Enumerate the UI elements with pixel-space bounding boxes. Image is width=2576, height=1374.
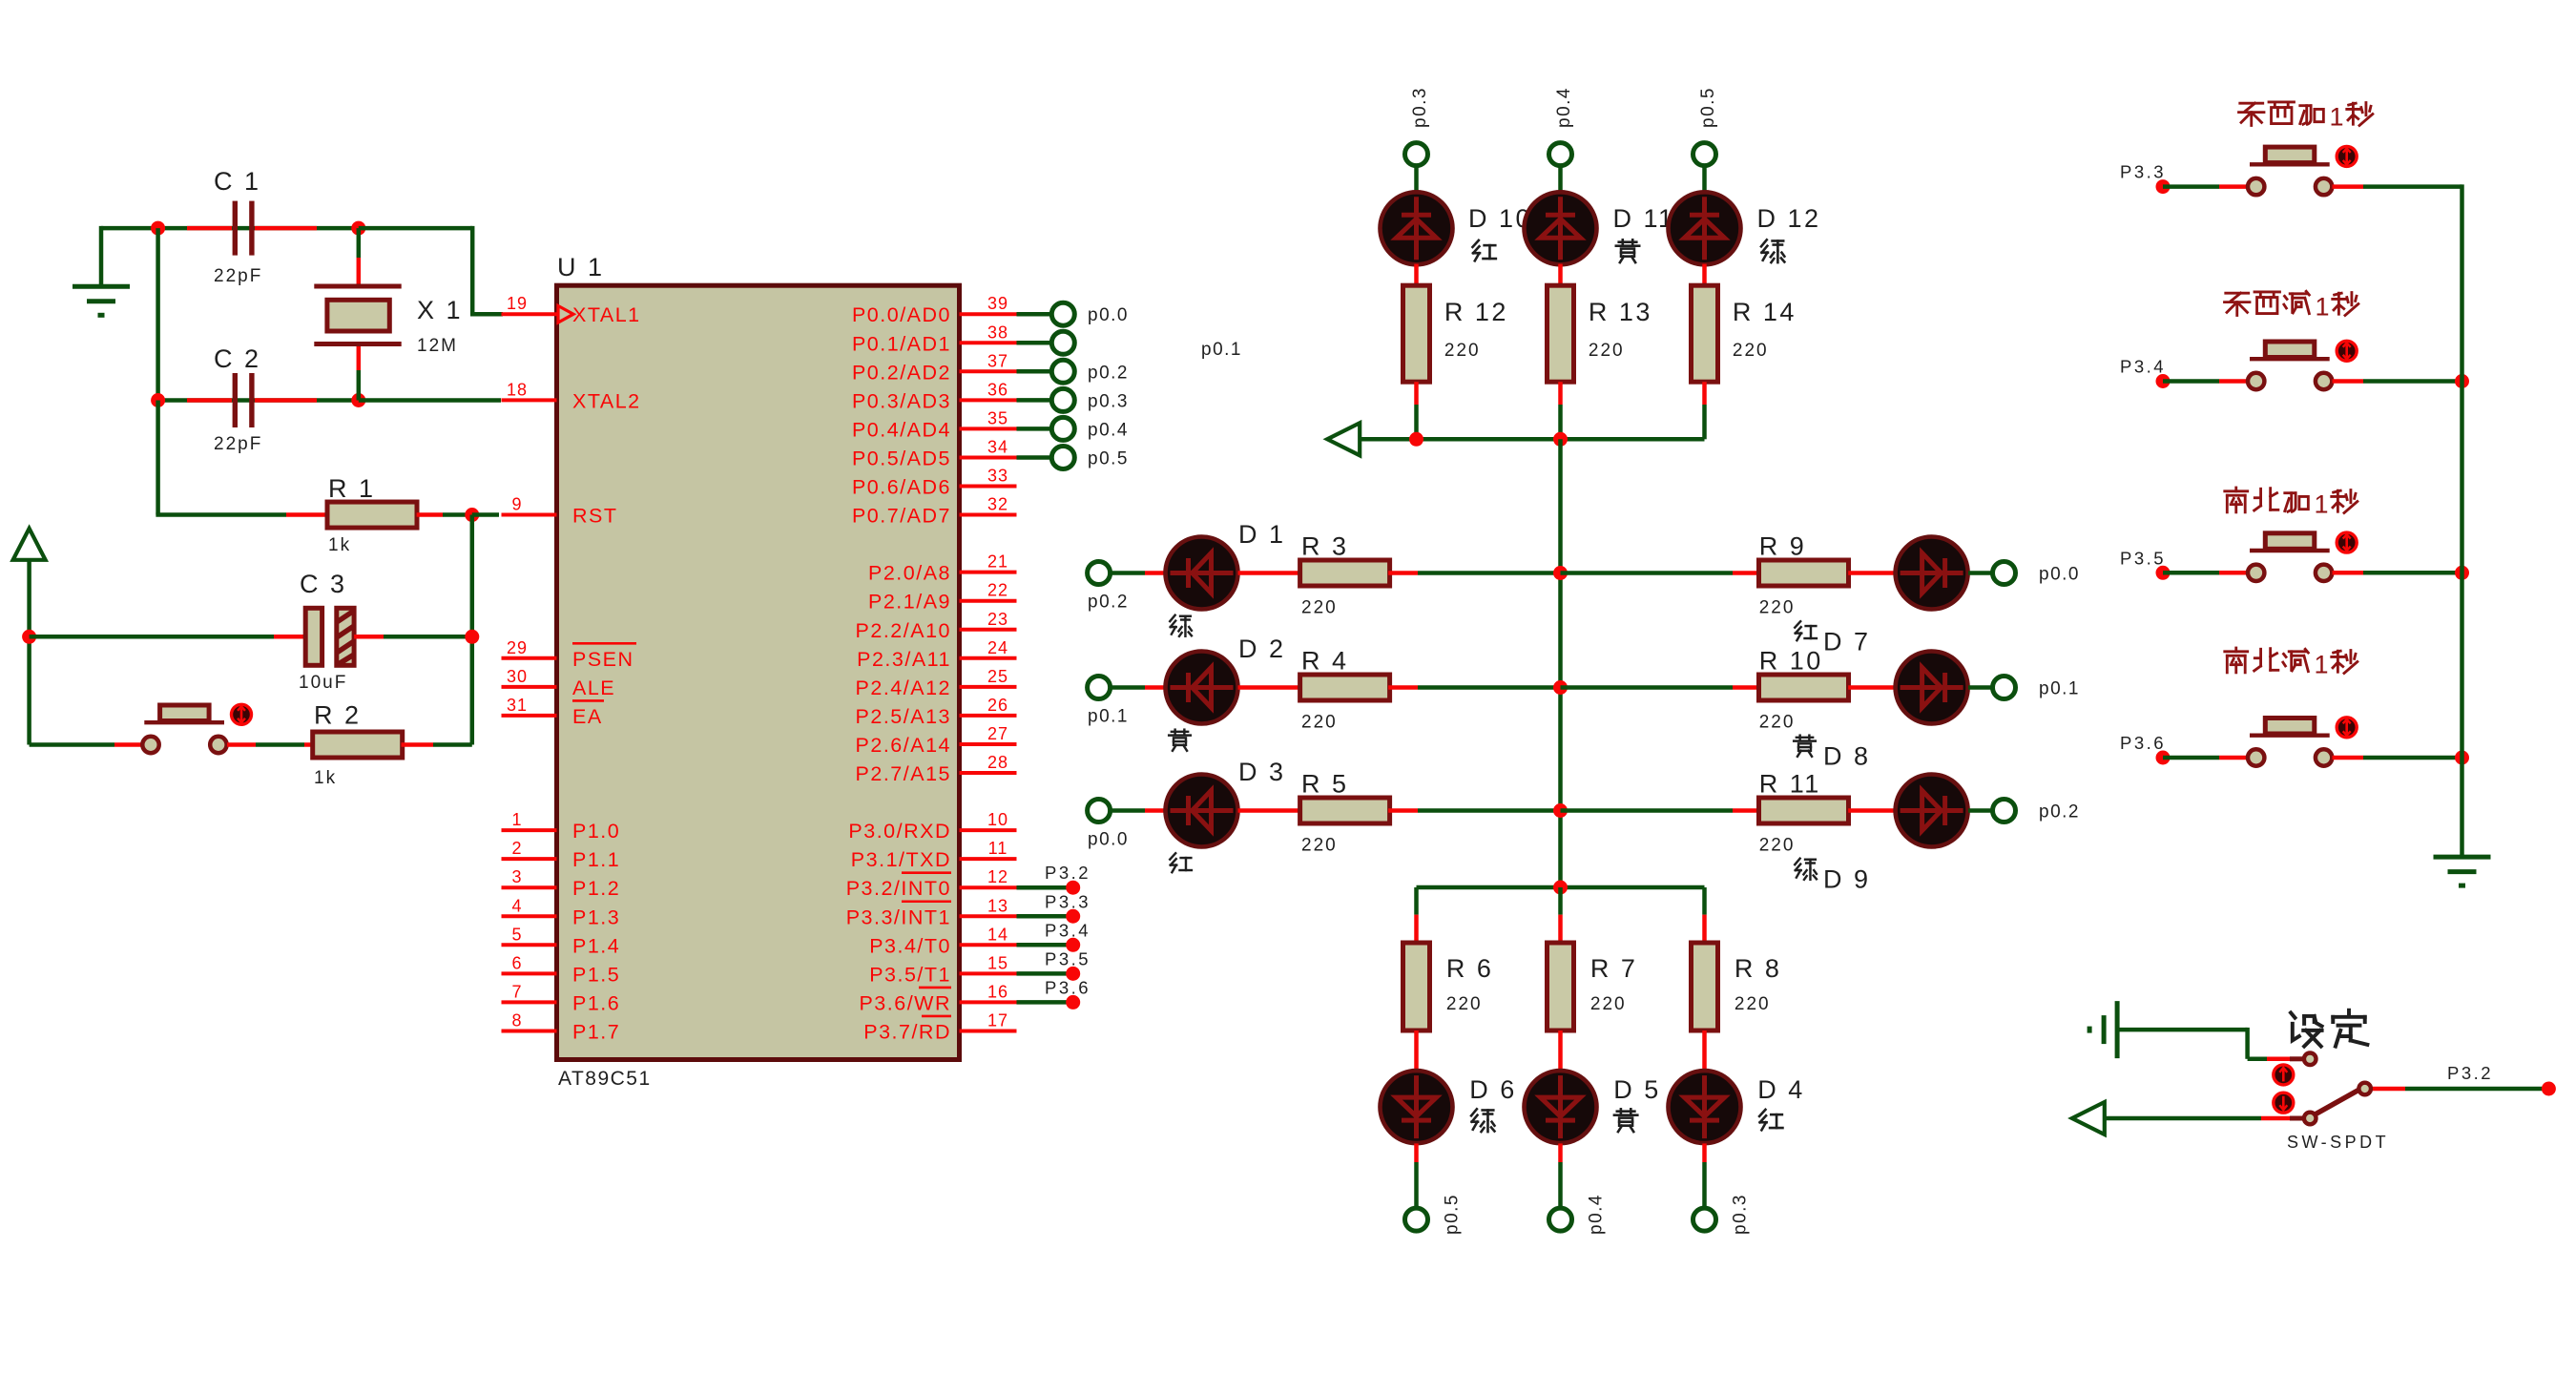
svg-text:C 2: C 2 — [214, 344, 261, 373]
svg-text:P3.4/T0: P3.4/T0 — [869, 934, 951, 957]
wire arrow to switch pole — [2104, 1116, 2261, 1121]
svg-text:31: 31 — [507, 696, 528, 715]
wire C3 row left — [30, 635, 274, 639]
wire terminal to LED — [1110, 571, 1145, 575]
wire LED to terminal — [1968, 571, 1993, 575]
svg-text:22pF: 22pF — [214, 266, 262, 286]
svg-text:P2.4/A12: P2.4/A12 — [856, 677, 951, 699]
terminal p0.3 (bottom) — [1693, 1194, 1751, 1235]
svg-text:P3.2: P3.2 — [2447, 1063, 2493, 1083]
svg-text:P0.2/AD2: P0.2/AD2 — [852, 361, 951, 384]
node P3.6 wire start — [2156, 751, 2171, 765]
capacitor C1 — [187, 226, 232, 231]
node C3-right junction — [465, 630, 479, 644]
svg-text:p0.3: p0.3 — [1731, 1194, 1751, 1235]
svg-text:10: 10 — [987, 810, 1008, 829]
wire LED to R14 — [1702, 264, 1707, 286]
svg-text:p0.4: p0.4 — [1587, 1194, 1607, 1235]
svg-text:13: 13 — [987, 896, 1008, 915]
svg-text:p0.0: p0.0 — [1088, 305, 1129, 325]
terminal p0.0 (right) — [1993, 562, 2080, 585]
node C2-left junction — [151, 393, 165, 407]
svg-text:PSEN: PSEN — [572, 648, 634, 671]
node P3.4 wire start — [2156, 374, 2171, 388]
svg-text:10uF: 10uF — [299, 673, 347, 693]
svg-text:P0.6/AD6: P0.6/AD6 — [852, 476, 951, 499]
LED D10 (up) — [1381, 192, 1453, 264]
wire LED to terminal — [1558, 1143, 1563, 1162]
svg-text:4: 4 — [511, 896, 522, 915]
svg-text:17: 17 — [987, 1010, 1008, 1030]
node trunk junction — [2455, 374, 2469, 388]
svg-text:RST: RST — [572, 505, 618, 528]
wire terminal to LED — [1702, 165, 1707, 198]
pin 23 P2.2/A10 — [856, 610, 1017, 642]
svg-text:6: 6 — [511, 953, 522, 972]
svg-text:220: 220 — [1733, 341, 1769, 361]
svg-text:p0.2: p0.2 — [1088, 363, 1129, 383]
svg-text:R 7: R 7 — [1590, 954, 1638, 983]
wire C2 junction to XTAL2 pin — [359, 398, 501, 403]
svg-text:P0.1/AD1: P0.1/AD1 — [852, 332, 951, 355]
svg-text:SW-SPDT: SW-SPDT — [2287, 1133, 2389, 1152]
svg-text:3: 3 — [511, 867, 522, 886]
resistor R7 — [1548, 943, 1574, 1030]
svg-text:34: 34 — [987, 437, 1008, 456]
wire R9 to LED — [1848, 571, 1896, 575]
wire resistor to spine — [1388, 808, 1418, 813]
wire LED to terminal — [1968, 685, 1993, 690]
wire RST junction down — [470, 515, 475, 745]
pin 32 P0.7/AD7 — [852, 495, 1017, 528]
node power rail / C3 junction — [22, 630, 36, 644]
svg-text:P3.6: P3.6 — [2120, 733, 2166, 753]
svg-text:220: 220 — [1759, 836, 1796, 856]
svg-text:220: 220 — [1759, 713, 1796, 733]
svg-text:12M: 12M — [417, 336, 458, 356]
node trunk junction — [2455, 751, 2469, 765]
capacitor C3 (polarised) — [274, 635, 305, 639]
svg-text:P3.4: P3.4 — [1045, 920, 1091, 940]
svg-text:R 13: R 13 — [1589, 298, 1652, 326]
svg-text:EA: EA — [572, 705, 603, 728]
pin 2 P1.1 — [502, 839, 621, 871]
svg-text:R 14: R 14 — [1733, 298, 1797, 326]
wire gnd to C1 junction — [101, 226, 158, 231]
terminal p0.5 at chip — [1017, 446, 1129, 468]
svg-text:D 6: D 6 — [1469, 1075, 1517, 1104]
wire terminal to LED — [1414, 165, 1419, 198]
pin 18 XTAL2 — [502, 380, 641, 412]
svg-text:P3.0/RXD: P3.0/RXD — [848, 820, 951, 843]
pin 8 P1.7 — [502, 1010, 621, 1043]
terminal p0.4 at chip — [1017, 417, 1129, 440]
svg-text:R 8: R 8 — [1735, 954, 1782, 983]
wire resistor to spine — [1388, 685, 1418, 690]
svg-text:XTAL2: XTAL2 — [572, 389, 641, 412]
capacitor C2 — [187, 398, 232, 403]
svg-text:P0.4/AD4: P0.4/AD4 — [852, 418, 951, 441]
pin 19 XTAL1 — [502, 294, 641, 326]
resistor R4 — [1300, 675, 1390, 700]
svg-text:P0.5/AD5: P0.5/AD5 — [852, 447, 951, 469]
pin 21 P2.0/A8 — [868, 552, 1017, 585]
wire button to trunk — [2333, 379, 2364, 384]
wire terminal to LED — [1110, 808, 1145, 813]
svg-text:P2.7/A15: P2.7/A15 — [856, 762, 951, 785]
wire LED to R4 — [1238, 685, 1302, 690]
svg-text:220: 220 — [1590, 994, 1627, 1014]
svg-text:p0.1: p0.1 — [2039, 679, 2080, 699]
LED D1 (left) — [1166, 537, 1238, 610]
svg-text:R 1: R 1 — [328, 474, 376, 503]
svg-text:P1.0: P1.0 — [572, 820, 620, 843]
svg-text:P1.6: P1.6 — [572, 991, 620, 1014]
svg-text:30: 30 — [507, 667, 528, 686]
wire rail down to R7 — [1558, 887, 1563, 915]
svg-text:P3.3/INT1: P3.3/INT1 — [846, 906, 951, 928]
svg-text:35: 35 — [987, 408, 1008, 427]
pin 30 ALE — [502, 667, 616, 699]
terminal p0.4 (top) — [1549, 87, 1575, 166]
svg-text:8: 8 — [511, 1010, 522, 1030]
LED D9 (right) — [1896, 775, 1968, 847]
svg-text:R 11: R 11 — [1759, 770, 1821, 799]
node spine junction — [1553, 680, 1568, 695]
resistor R8 — [1692, 943, 1718, 1030]
pin 24 P2.3/A11 — [857, 638, 1016, 671]
LED D5 (down) — [1525, 1071, 1597, 1143]
svg-text:P2.5/A13: P2.5/A13 — [856, 705, 951, 728]
label SheDing (set) — [2291, 1012, 2322, 1046]
wire C1 row — [158, 226, 363, 231]
pin 15 P3.5/T1 — [869, 953, 1016, 986]
svg-text:p0.5: p0.5 — [1088, 448, 1129, 468]
svg-text:p0.1: p0.1 — [1201, 340, 1242, 360]
svg-text:39: 39 — [987, 294, 1008, 313]
svg-text:U 1: U 1 — [557, 253, 605, 281]
svg-text:D 4: D 4 — [1757, 1075, 1805, 1104]
wire R11 to LED — [1848, 808, 1896, 813]
pin 27 P2.6/A14 — [856, 724, 1017, 757]
svg-text:26: 26 — [987, 696, 1008, 715]
wire resistor to spine — [1388, 571, 1418, 575]
wire net P3.6 — [1017, 977, 1091, 1010]
wire bottom rail — [1417, 885, 1705, 890]
svg-text:P2.3/A11: P2.3/A11 — [857, 648, 951, 671]
resistor R12 — [1403, 285, 1430, 382]
LED D2 (left) — [1166, 652, 1238, 724]
svg-text:P3.6/WR: P3.6/WR — [859, 991, 951, 1014]
svg-text:D 5: D 5 — [1613, 1075, 1661, 1104]
node trunk junction — [2455, 566, 2469, 580]
node bottom junction — [1553, 881, 1568, 895]
svg-text:p0.2: p0.2 — [2039, 802, 2080, 822]
svg-text:32: 32 — [987, 495, 1008, 514]
power rail arrow (left) — [1327, 423, 1360, 455]
svg-text:P3.2: P3.2 — [1045, 863, 1091, 883]
terminal p0.3 at chip — [1017, 388, 1129, 411]
node RST junction — [465, 508, 479, 522]
wire LED to terminal — [1414, 1143, 1419, 1162]
svg-text:R 12: R 12 — [1444, 298, 1508, 326]
svg-text:220: 220 — [1301, 836, 1338, 856]
wire spine to resistor — [1561, 571, 1734, 575]
svg-text:P3.5/T1: P3.5/T1 — [869, 963, 951, 986]
svg-text:p0.4: p0.4 — [1088, 420, 1129, 440]
terminal p0.2 (left) — [1088, 562, 1129, 613]
terminal p0.1 (right) — [1993, 677, 2080, 699]
pin 38 P0.1/AD1 — [852, 323, 1017, 355]
svg-text:C 3: C 3 — [300, 570, 347, 598]
pin 25 P2.4/A12 — [856, 667, 1017, 699]
wire LED to R5 — [1238, 808, 1302, 813]
resistor R11 — [1759, 798, 1849, 823]
svg-text:p0.2: p0.2 — [1088, 593, 1129, 613]
wire R6 to LED — [1414, 1030, 1419, 1071]
ground — [73, 286, 130, 315]
wire spine down — [1558, 439, 1563, 887]
LED D8 (right) — [1896, 652, 1968, 724]
svg-text:1k: 1k — [314, 768, 337, 788]
svg-text:37: 37 — [987, 351, 1008, 370]
svg-text:R 9: R 9 — [1759, 532, 1807, 561]
wire R2 row — [30, 742, 114, 747]
svg-text:p0.1: p0.1 — [1088, 707, 1129, 727]
node C1-right junction — [351, 221, 365, 236]
node P3.3 wire start — [2156, 179, 2171, 194]
power arrow terminal (bottom) — [2072, 1102, 2105, 1135]
svg-text:22: 22 — [987, 581, 1008, 600]
wire button to trunk — [2333, 184, 2364, 189]
svg-text:19: 19 — [507, 294, 528, 313]
terminal p0.5 (bottom) — [1405, 1194, 1463, 1235]
svg-text:P3.5: P3.5 — [1045, 948, 1091, 968]
wire LED to terminal — [1702, 1143, 1707, 1162]
wire into XTAL1 pin — [470, 312, 503, 317]
resistor R1 — [286, 512, 328, 517]
svg-text:D 2: D 2 — [1238, 635, 1286, 663]
svg-text:5: 5 — [511, 925, 522, 944]
svg-text:D 9: D 9 — [1823, 865, 1871, 894]
resistor R6 — [1403, 943, 1430, 1030]
svg-text:D 12: D 12 — [1757, 204, 1821, 233]
push button P3.4 — [2248, 342, 2332, 389]
svg-text:1: 1 — [2316, 293, 2330, 322]
svg-text:P3.3: P3.3 — [2120, 162, 2166, 182]
svg-text:P0.0/AD0: P0.0/AD0 — [852, 303, 951, 326]
terminal p0.0 at chip — [1017, 302, 1129, 325]
svg-text:29: 29 — [507, 638, 528, 657]
wire ground to switch top throw — [2119, 1028, 2248, 1032]
label button title 2 — [2225, 291, 2358, 321]
svg-text:1: 1 — [2315, 490, 2329, 519]
svg-text:2: 2 — [511, 839, 522, 858]
wire RST junction to pin 9 — [472, 512, 499, 517]
wire net P3.2 — [1017, 863, 1091, 895]
switch SW-SPDT — [2290, 1056, 2304, 1061]
svg-text:D 7: D 7 — [1823, 628, 1871, 656]
svg-text:18: 18 — [507, 380, 528, 399]
wire junction to XTAL1 corner — [359, 226, 472, 231]
svg-text:p0.3: p0.3 — [1410, 87, 1430, 128]
push button P3.6 — [2248, 718, 2332, 766]
pin 26 P2.5/A13 — [856, 696, 1017, 728]
pin 22 P2.1/A9 — [868, 581, 1017, 614]
terminal p0.2 (right) — [1993, 800, 2080, 822]
svg-text:R 5: R 5 — [1301, 770, 1349, 799]
wire resistor to rail — [1702, 382, 1707, 405]
svg-text:p0.3: p0.3 — [1088, 391, 1129, 411]
wire R8 to LED — [1702, 1030, 1707, 1071]
wire to button — [2163, 756, 2219, 760]
svg-text:C 1: C 1 — [214, 167, 261, 196]
LED D4 (down) — [1669, 1071, 1741, 1143]
ground (right trunk) — [2434, 857, 2491, 885]
svg-text:P3.3: P3.3 — [1045, 891, 1091, 911]
svg-text:P2.0/A8: P2.0/A8 — [868, 562, 951, 585]
resistor R13 — [1548, 285, 1574, 382]
svg-text:P2.6/A14: P2.6/A14 — [856, 734, 951, 757]
svg-text:220: 220 — [1301, 598, 1338, 618]
terminal p0.2 at chip — [1017, 360, 1129, 383]
wire to button — [2163, 379, 2219, 384]
svg-text:P3.4: P3.4 — [2120, 357, 2166, 377]
terminal p0.1 at chip — [1017, 331, 1075, 354]
svg-text:24: 24 — [987, 638, 1008, 657]
terminal p0.3 (top) — [1405, 87, 1431, 166]
LED D3 (left) — [1166, 775, 1238, 847]
push button P3.3 — [2248, 147, 2332, 195]
pin 31 EA — [502, 696, 605, 728]
pin 39 P0.0/AD0 — [852, 294, 1017, 326]
svg-text:p0.5: p0.5 — [1443, 1194, 1463, 1235]
wire net P3.5 — [1017, 948, 1091, 981]
svg-text:P3.2/INT0: P3.2/INT0 — [846, 877, 951, 900]
push button P3.5 — [2248, 533, 2332, 581]
label button title 1 — [2239, 102, 2373, 132]
wire LED to R12 — [1414, 264, 1419, 286]
LED D11 (up) — [1525, 192, 1597, 264]
svg-text:p0.5: p0.5 — [1698, 87, 1718, 128]
wire top rail — [1360, 437, 1705, 442]
svg-text:X 1: X 1 — [417, 296, 463, 324]
svg-text:P0.3/AD3: P0.3/AD3 — [852, 389, 951, 412]
svg-text:D 3: D 3 — [1238, 758, 1286, 786]
svg-text:P2.2/A10: P2.2/A10 — [856, 619, 951, 642]
wire spine to resistor — [1561, 685, 1734, 690]
pin 17 P3.7/RD — [863, 1010, 1016, 1043]
push button RESET — [114, 742, 141, 747]
wire net P3.4 — [1017, 920, 1091, 952]
wire trunk down to ground — [2460, 184, 2464, 857]
svg-text:P1.7: P1.7 — [572, 1020, 620, 1043]
svg-text:p0.4: p0.4 — [1554, 87, 1574, 128]
LED D7 (right) — [1896, 537, 1968, 610]
crystal X1 — [357, 228, 362, 258]
svg-text:7: 7 — [511, 982, 522, 1001]
pin 29 PSEN — [502, 638, 637, 671]
svg-text:P2.1/A9: P2.1/A9 — [868, 591, 951, 614]
power arrow terminal — [13, 529, 46, 560]
wire LED to terminal — [1968, 808, 1993, 813]
wire rail down to R8 — [1702, 887, 1707, 915]
wire LED to R3 — [1238, 571, 1302, 575]
pin 33 P0.6/AD6 — [852, 467, 1017, 499]
svg-text:ALE: ALE — [572, 677, 615, 699]
wire terminal to LED — [1110, 685, 1145, 690]
pin 37 P0.2/AD2 — [852, 351, 1017, 384]
wire to button — [2163, 184, 2219, 189]
svg-text:p0.0: p0.0 — [2039, 565, 2080, 585]
svg-text:23: 23 — [987, 610, 1008, 629]
pin 5 P1.4 — [502, 925, 621, 957]
resistor R5 — [1300, 798, 1390, 823]
resistor R10 — [1759, 675, 1849, 700]
wire rail down to R6 — [1414, 887, 1419, 915]
svg-text:38: 38 — [987, 323, 1008, 342]
svg-text:D 1: D 1 — [1238, 520, 1286, 549]
wire button to trunk — [2333, 571, 2364, 575]
LED D12 (up) — [1669, 192, 1741, 264]
svg-text:1: 1 — [2315, 651, 2329, 679]
svg-text:P0.7/AD7: P0.7/AD7 — [852, 505, 951, 528]
pin 36 P0.3/AD3 — [852, 380, 1017, 412]
svg-text:1k: 1k — [328, 535, 351, 555]
svg-text:14: 14 — [987, 925, 1008, 944]
node rail junction 2 — [1553, 432, 1568, 447]
ground (sideways) — [2089, 1001, 2117, 1058]
pin 3 P1.2 — [502, 867, 621, 900]
pin 14 P3.4/T0 — [869, 925, 1016, 957]
svg-text:220: 220 — [1589, 341, 1625, 361]
IC U1 AT89C51 body — [557, 285, 960, 1059]
svg-text:9: 9 — [511, 495, 522, 514]
svg-text:15: 15 — [987, 953, 1008, 972]
svg-text:R 3: R 3 — [1301, 532, 1349, 561]
wire switch common to P3.2 — [2373, 1087, 2405, 1092]
wire terminal to LED — [1558, 165, 1563, 198]
svg-text:P1.1: P1.1 — [572, 848, 620, 871]
svg-text:R 4: R 4 — [1301, 647, 1349, 676]
svg-text:25: 25 — [987, 667, 1008, 686]
terminal p0.4 (bottom) — [1549, 1194, 1607, 1235]
wire resistor to rail — [1414, 382, 1419, 405]
node rail junction 1 — [1409, 432, 1423, 447]
svg-text:21: 21 — [987, 552, 1008, 572]
svg-text:220: 220 — [1735, 994, 1771, 1014]
node P3.2 end — [2542, 1082, 2556, 1096]
svg-text:22pF: 22pF — [214, 434, 262, 454]
label button title 4 — [2225, 648, 2358, 678]
svg-text:12: 12 — [987, 867, 1008, 886]
pin 28 P2.7/A15 — [856, 753, 1017, 785]
svg-text:27: 27 — [987, 724, 1008, 743]
svg-text:36: 36 — [987, 380, 1008, 399]
wire net P3.3 — [1017, 891, 1091, 924]
pin 12 P3.2/INT0 — [846, 867, 1017, 900]
svg-text:D 8: D 8 — [1823, 742, 1871, 771]
svg-text:P3.1/TXD: P3.1/TXD — [851, 848, 951, 871]
wire LED to R13 — [1558, 264, 1563, 286]
terminal p0.0 (left) — [1088, 800, 1129, 850]
resistor R2 — [304, 742, 314, 747]
wire R7 to LED — [1558, 1030, 1563, 1071]
pin 13 P3.3/INT1 — [846, 896, 1017, 928]
pin 6 P1.5 — [502, 953, 621, 986]
node spine junction — [1553, 803, 1568, 818]
svg-text:P3.6: P3.6 — [1045, 977, 1091, 997]
